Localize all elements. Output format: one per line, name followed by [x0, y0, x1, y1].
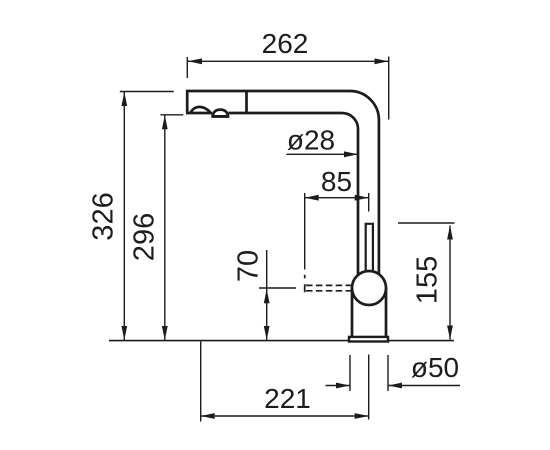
countertop line [109, 340, 454, 342]
dimension 85 label [321, 166, 352, 197]
dimension 262 line [188, 60, 389, 62]
dashed hose line lower [306, 290, 352, 292]
dimension 262 label [262, 28, 309, 59]
svg-text:155: 155 [412, 256, 444, 304]
dimension 85 arrowhead right [355, 195, 369, 201]
faucet spout outer contour (head top + arm + outer bend + down tube right edge) [187, 91, 379, 275]
dimension 262 arrowhead left [188, 58, 202, 64]
dimension 85 extension line right [368, 193, 370, 212]
dashed hose end vertical dashes [304, 275, 306, 292]
dimension d50 extension line right [387, 355, 389, 391]
dimension d50 arrowhead right [388, 383, 402, 389]
svg-text:85: 85 [321, 166, 352, 197]
dimension 296 arrowhead bottom [162, 326, 168, 340]
dimension 155 arrowhead bottom [447, 326, 453, 340]
dimension 85 arrowhead left [305, 195, 319, 201]
faucet spout underside (head bottom + arm underside + inner bend + down tube left edge) [186, 113, 358, 275]
dimension 155 arrowhead top [447, 226, 453, 240]
dimension d50 arrowhead left [336, 383, 350, 389]
svg-text:326: 326 [88, 192, 120, 240]
svg-text:70: 70 [233, 250, 265, 282]
dimension d50 label [411, 352, 459, 383]
dimension 70 arrowhead up [264, 289, 270, 303]
lever handle [366, 224, 373, 272]
dimension 326 arrowhead bottom [121, 326, 127, 340]
spray outlet bump 2 [211, 110, 229, 117]
dimension 326 line [123, 92, 125, 340]
dimension 296 label [129, 213, 161, 261]
dimension 70 line [266, 250, 268, 340]
dimension d50 line right part [389, 385, 461, 387]
dimension 155 line [449, 226, 451, 340]
dimension 70 label [233, 250, 265, 282]
dimension 262 extension line left [186, 57, 188, 78]
svg-text:262: 262 [262, 28, 309, 59]
dashed hose line upper [306, 284, 352, 286]
dimension d50 line left part [326, 385, 350, 387]
svg-text:296: 296 [129, 213, 161, 261]
head divider line [245, 91, 248, 113]
dimension 262 arrowhead right [375, 58, 389, 64]
body below ball joint [352, 287, 386, 337]
base flange [349, 337, 388, 342]
svg-text:221: 221 [264, 383, 311, 414]
dimension 262 extension line right [388, 57, 390, 120]
dimension d28 arrowhead [344, 151, 358, 157]
dimension 70 extension line [259, 287, 296, 289]
dimension d28 leader line [287, 153, 358, 155]
dimension 221 arrowhead left [201, 413, 215, 419]
ball joint [352, 271, 386, 305]
dimension d28 label [287, 125, 335, 156]
dimension 155 label [412, 256, 444, 304]
dimension 70 arrowhead down [264, 326, 270, 340]
dimension 326 extension line top [120, 91, 174, 93]
dimension 296 line [164, 115, 166, 340]
dimension 221 arrowhead right [355, 413, 369, 419]
dimension 326 arrowhead top [121, 92, 127, 106]
axis extension line (d50 middle / 221 right) [368, 355, 370, 420]
dimension 296 arrowhead top [162, 115, 168, 129]
dimension 85 extension line left [304, 193, 306, 270]
dimension 221 line [201, 415, 369, 417]
dimension 296 extension line top [161, 114, 184, 116]
spray outlet bump 1 [191, 107, 211, 113]
svg-text:ø28: ø28 [287, 125, 335, 156]
dimension 155 extension line top [398, 222, 455, 224]
dimension 221 label [264, 383, 311, 414]
dimension d50 extension line left [349, 355, 351, 391]
dimension 85 line [305, 197, 369, 199]
dimension 221 extension line left [200, 342, 202, 422]
dimension 326 label [88, 192, 120, 240]
svg-text:ø50: ø50 [411, 352, 459, 383]
